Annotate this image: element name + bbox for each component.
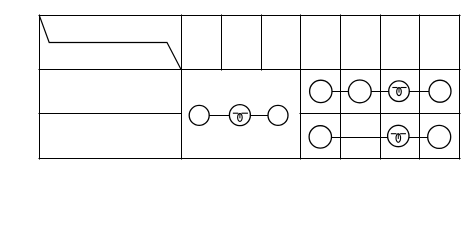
horizontal divider row1/row2 — [39, 69, 460, 71]
node circle A2 (middle row right) — [268, 105, 288, 125]
wire L1-A2 — [250, 115, 268, 117]
node circle A1 (middle row left) — [189, 105, 209, 125]
node circle B1 (right grid row1 col1) — [310, 80, 332, 102]
vertical divider x221 top band — [221, 15, 223, 70]
frame right border — [459, 15, 461, 159]
frame bottom border — [39, 158, 460, 160]
battery flag symbol top-left cell — [40, 16, 181, 69]
node circle C4 (right grid row2 col4) — [428, 125, 451, 148]
node circle B4 (right grid row1 col4) — [429, 80, 451, 102]
frame left border — [39, 15, 41, 159]
vertical divider x380 — [380, 15, 382, 159]
vertical divider x340 — [340, 15, 342, 159]
vertical divider x181 — [181, 15, 183, 159]
lamp L1 (middle row) — [229, 105, 250, 126]
node circle B2 (right grid row1 col2) — [348, 80, 371, 103]
wire B2-L2 — [371, 91, 389, 93]
horizontal divider left row2/row3 — [39, 113, 181, 115]
vertical divider x300 — [300, 15, 302, 159]
horizontal divider right row2/row3 — [300, 113, 460, 115]
node circle C1 (right grid row2 col1) — [309, 126, 331, 148]
lamp L2 (right grid row1 col3) — [389, 81, 410, 102]
vertical divider x261 top band — [261, 15, 263, 70]
wire C1-L3 long — [332, 137, 388, 139]
lamp L3 (right grid row2 col3) — [388, 125, 409, 146]
frame top border — [39, 15, 460, 17]
wire A1-L1 — [209, 115, 229, 117]
wire L3-C4 — [409, 137, 428, 139]
vertical divider x420 — [419, 15, 421, 159]
wire B1-B2 — [332, 91, 348, 93]
wire L2-B4 — [409, 91, 429, 93]
